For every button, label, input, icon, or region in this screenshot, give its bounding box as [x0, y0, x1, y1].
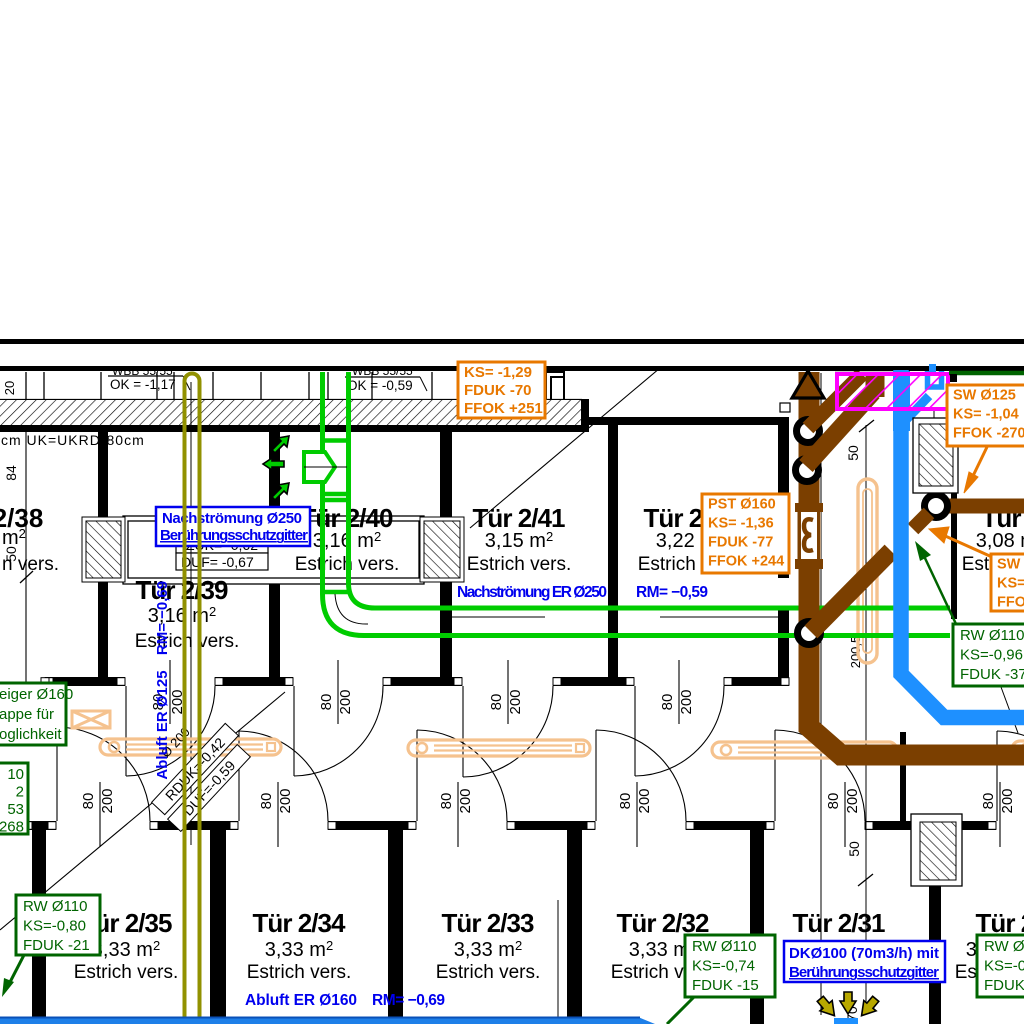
jamb small [780, 403, 790, 412]
svg-text:SW Ø1: SW Ø1 [997, 557, 1024, 573]
dim lines and 80/200 labels top doors [169, 660, 171, 724]
olive pipes vertical [185, 374, 200, 1019]
svg-text:3,33 m2: 3,33 m2 [454, 938, 522, 961]
svg-text:Berührungsschutzgitter: Berührungsschutzgitter [789, 964, 939, 981]
yellow drain arrows [814, 992, 882, 1021]
svg-text:Estrich vers.: Estrich vers. [467, 554, 572, 575]
wire top facade line 1 [0, 339, 1024, 344]
svg-text:Tür 2/34: Tür 2/34 [253, 908, 347, 938]
svg-text:OK = -0,59: OK = -0,59 [347, 378, 413, 393]
orange box SW lower [991, 554, 1024, 611]
hatched facade wall band [0, 399, 582, 401]
svg-text:200: 200 [678, 689, 695, 714]
svg-text:Estrich vers.: Estrich vers. [74, 962, 179, 983]
svg-text:3,33 m2: 3,33 m2 [265, 938, 333, 961]
svg-text:KS=-0,7: KS=-0,7 [984, 958, 1024, 975]
svg-text:Abluft ER Ø160: Abluft ER Ø160 [245, 992, 357, 1009]
leader diagonal bottom left [0, 692, 285, 930]
dim line left x26 [25, 432, 27, 683]
niche outline [123, 516, 424, 584]
svg-text:FFOK -: FFOK - [997, 595, 1024, 611]
hatched pier right [420, 517, 464, 582]
svg-text:FDUK -: FDUK - [984, 977, 1024, 994]
svg-text:PST Ø160: PST Ø160 [708, 497, 776, 513]
svg-text:KS= -1,36: KS= -1,36 [708, 516, 774, 532]
DUF box [176, 553, 268, 570]
green arrows at wall [263, 436, 289, 500]
svg-text:RW Ø11: RW Ø11 [984, 938, 1024, 955]
svg-text:RW Ø110: RW Ø110 [692, 938, 756, 955]
svg-text:RM= −0,69: RM= −0,69 [372, 992, 445, 1009]
svg-text:Tür 2/33: Tür 2/33 [442, 908, 535, 938]
svg-text:FDUK -77: FDUK -77 [708, 535, 773, 551]
svg-text:3,33 m2: 3,33 m2 [92, 938, 160, 961]
hatched pier left [82, 517, 125, 582]
svg-text:KS= -1,29: KS= -1,29 [464, 364, 532, 381]
small blue drain square [834, 1018, 858, 1024]
svg-text:KS= -0: KS= -0 [997, 576, 1024, 592]
svg-text:FFOK +251: FFOK +251 [464, 400, 543, 417]
dim lines and 80/200 labels bottom doors [99, 782, 101, 847]
green box RW D [953, 624, 1024, 686]
svg-text:RM= −0,59: RM= −0,59 [636, 584, 708, 601]
corridor ceiling line y617 [452, 616, 545, 618]
svg-text:80: 80 [318, 694, 335, 711]
svg-text:268: 268 [0, 819, 24, 836]
rotated RDUK/DUF leader labels [152, 723, 239, 814]
svg-text:200: 200 [999, 788, 1016, 813]
vent triangle [792, 371, 824, 398]
svg-text:RW Ø110: RW Ø110 [960, 627, 1024, 644]
svg-text:50: 50 [845, 445, 861, 461]
peach door leaf bars [100, 739, 281, 755]
wall verticals middle band [98, 417, 957, 823]
svg-text:Abluft ER Ø125: Abluft ER Ø125 [154, 670, 171, 779]
doors top row (leaf + arc) [126, 686, 724, 777]
svg-text:80: 80 [258, 793, 275, 810]
svg-text:200: 200 [507, 689, 524, 714]
svg-text:Tür 2/39: Tür 2/39 [136, 575, 229, 605]
svg-text:DKØ100 (70m3/h) mit: DKØ100 (70m3/h) mit [789, 945, 939, 962]
svg-text:OK = -1,17: OK = -1,17 [110, 377, 176, 392]
svg-text:Estrich vers.: Estrich vers. [247, 962, 352, 983]
blue box DK100 [784, 941, 945, 982]
svg-text:80: 80 [80, 793, 97, 810]
svg-text:10: 10 [7, 766, 24, 783]
PST trap symbol [797, 512, 821, 559]
svg-text:200: 200 [99, 788, 116, 813]
leader diagonal top middle [470, 368, 660, 528]
svg-text:FFOK +244: FFOK +244 [708, 554, 784, 570]
svg-text:KS= -1,04: KS= -1,04 [953, 407, 1019, 423]
svg-text:200: 200 [337, 689, 354, 714]
orange box PST [702, 494, 789, 573]
svg-text:FDUK -15: FDUK -15 [692, 977, 759, 994]
window band ticks [26, 372, 564, 399]
bottom room divider walls [32, 830, 941, 1024]
hatched pier B [911, 814, 962, 886]
svg-text:200: 200 [457, 788, 474, 813]
svg-text:80: 80 [825, 793, 842, 810]
svg-text:2: 2 [16, 784, 24, 801]
dim line between olive x191 [190, 382, 192, 845]
window niche frame detail [546, 372, 564, 402]
leader below RW box right [1001, 687, 1018, 733]
green box RW B [685, 935, 775, 997]
svg-text:FDUK -70: FDUK -70 [464, 382, 532, 399]
svg-text:80: 80 [617, 793, 634, 810]
svg-text:FDUK -37: FDUK -37 [960, 666, 1024, 683]
svg-text:RW Ø110: RW Ø110 [23, 898, 87, 915]
orange box KS -1,29 [458, 362, 545, 418]
svg-text:50: 50 [846, 841, 862, 857]
svg-text:80: 80 [659, 694, 676, 711]
svg-text:RM= −0,69: RM= −0,69 [154, 581, 171, 655]
svg-text:Berührungsschutzgitter: Berührungsschutzgitter [160, 527, 308, 544]
svg-text:80: 80 [980, 793, 997, 810]
svg-text:n vers.: n vers. [2, 554, 59, 575]
svg-text:200: 200 [636, 788, 653, 813]
svg-text:eiger Ø160: eiger Ø160 [0, 686, 73, 703]
svg-text:200: 200 [844, 788, 861, 813]
doors bottom row (leaf + arc) [57, 727, 1024, 821]
bottom wall segments y821-830 [24, 821, 56, 830]
wire top facade line 2 [0, 366, 1024, 371]
dim lines right shaft [820, 373, 822, 409]
svg-text:FDUK -21: FDUK -21 [23, 937, 90, 954]
orange arrows [929, 447, 992, 557]
svg-text:80: 80 [488, 694, 505, 711]
blue branch fitting [905, 396, 929, 421]
svg-text:FFOK -270: FFOK -270 [953, 426, 1024, 442]
svg-text:200,5: 200,5 [848, 636, 863, 669]
magenta hatched zone underlay [837, 374, 948, 409]
svg-text:Tür 2/31: Tür 2/31 [793, 908, 886, 938]
svg-text:Estrich vers.: Estrich vers. [135, 631, 240, 652]
brown diagonals [806, 372, 891, 632]
blue box Nachstroemung [156, 507, 310, 546]
magenta hatched zone overlay [837, 374, 948, 409]
svg-text:appe für: appe für [0, 706, 54, 723]
district line dark green [949, 371, 1024, 376]
svg-text:3,15 m2: 3,15 m2 [485, 529, 553, 552]
peach stadium shaft symbol [858, 479, 877, 663]
peach damper symbol [72, 711, 110, 728]
svg-text:80: 80 [438, 793, 455, 810]
wall top line right section [589, 417, 789, 425]
svg-text:KS=-0,80: KS=-0,80 [23, 918, 86, 935]
bottom blue pipe band [0, 1017, 655, 1024]
corridor top wall segments [45, 677, 125, 686]
green box RW C [977, 935, 1024, 997]
green duct outlet pentagon [304, 452, 335, 482]
supply duct vertical green [320, 372, 950, 636]
svg-text:oglichkeit: oglichkeit [0, 726, 62, 743]
svg-text:cm UK=UKRD-80cm: cm UK=UKRD-80cm [1, 432, 145, 448]
orange box SW 125 [947, 385, 1024, 446]
green box numbers [0, 763, 28, 834]
duct bend centerline [335, 594, 368, 624]
svg-text:3,08 m2: 3,08 m2 [976, 529, 1024, 552]
svg-text:200: 200 [277, 788, 294, 813]
svg-text:53: 53 [7, 801, 24, 818]
green box RW A [16, 895, 100, 955]
hatched pier A [913, 418, 958, 493]
svg-text:Nachströmung ER Ø250: Nachströmung ER Ø250 [457, 584, 607, 601]
brown branch right with elbow [940, 499, 1024, 514]
brown elbow rings [797, 420, 820, 443]
svg-text:20: 20 [2, 381, 17, 395]
svg-text:84: 84 [3, 465, 19, 481]
brown main riser [809, 372, 1024, 755]
green box steiger [0, 683, 66, 745]
svg-text:KS=-0,96: KS=-0,96 [960, 647, 1023, 664]
svg-text:KS=-0,74: KS=-0,74 [692, 958, 755, 975]
svg-text:SW Ø125: SW Ø125 [953, 388, 1016, 404]
ZUK box [176, 536, 268, 553]
blue pipe main [901, 370, 1024, 718]
svg-text:Estrich vers.: Estrich vers. [436, 962, 541, 983]
